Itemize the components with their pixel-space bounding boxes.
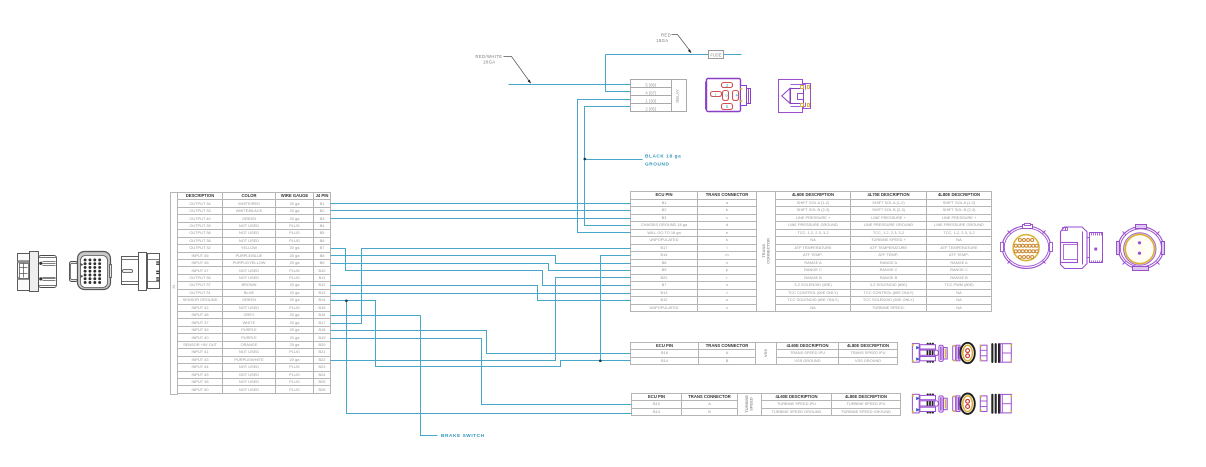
svg-text:RED: RED	[661, 32, 671, 37]
svg-text:FUSE: FUSE	[710, 53, 721, 58]
svg-text:BRAKE SWITCH: BRAKE SWITCH	[441, 433, 485, 438]
svg-text:4 (87): 4 (87)	[645, 90, 657, 95]
svg-text:18GA: 18GA	[656, 38, 668, 43]
svg-text:1 (30): 1 (30)	[645, 98, 657, 103]
svg-text:GROUND: GROUND	[645, 162, 669, 167]
svg-text:2 (85): 2 (85)	[645, 106, 657, 111]
svg-text:BLACK 18 ga: BLACK 18 ga	[645, 154, 681, 159]
svg-text:RELAY: RELAY	[675, 89, 680, 103]
svg-text:20GA: 20GA	[483, 60, 495, 65]
svg-text:5 (86): 5 (86)	[645, 82, 657, 87]
svg-text:RED/WHITE: RED/WHITE	[475, 54, 502, 59]
